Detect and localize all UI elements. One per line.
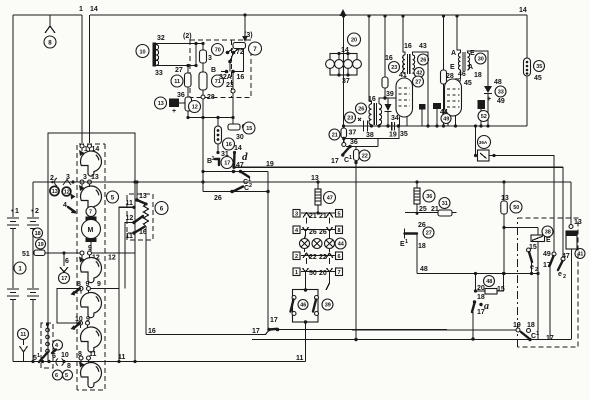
relay ref 38: [542, 226, 553, 237]
svg-text:27: 27: [426, 231, 432, 237]
gauge G6: [81, 363, 102, 388]
fork 26 left: [303, 227, 309, 235]
wire net16 to lighting switch: [146, 330, 269, 335]
svg-text:11: 11: [118, 354, 126, 361]
motor M: [82, 220, 101, 239]
svg-text:6: 6: [65, 258, 69, 265]
wire relay pin12 to panel: [125, 223, 134, 289]
wire T1 left top: [403, 16, 405, 55]
svg-text:(2): (2): [183, 33, 192, 40]
battery ref 1: [14, 262, 26, 274]
wire relay pin11 top to panel: [119, 207, 134, 361]
diode 34 wire: [387, 98, 389, 104]
net 48 wire: [417, 273, 476, 275]
connector arcs: [56, 359, 64, 366]
svg-text:39: 39: [386, 91, 394, 98]
wire resistor12 down: [187, 111, 189, 118]
wire e2b down: [549, 266, 551, 339]
svg-text:47: 47: [562, 253, 570, 260]
transformer T1 right winding: [412, 55, 414, 73]
svg-text:19: 19: [513, 322, 521, 329]
terminal 1 gauge1: [80, 144, 84, 148]
cigar lighter stem: [63, 253, 65, 266]
switch 5-1 feed wire: [47, 325, 49, 329]
transformer T2 left winding: [369, 104, 372, 125]
junction dots cap19: [386, 124, 389, 127]
resistor ref 11: [171, 75, 183, 87]
battery B1 bottom cell: [7, 289, 19, 300]
gauge G4: [81, 293, 102, 318]
motor brush bottom: [86, 238, 97, 242]
svg-text:70: 70: [215, 48, 221, 54]
svg-text:2: 2: [35, 208, 39, 215]
terminal 9 gauge5: [86, 321, 90, 325]
wire contactor right leg: [233, 49, 244, 72]
svg-text:16: 16: [404, 43, 412, 50]
switch 47 terminal: [561, 257, 565, 261]
svg-text:11: 11: [126, 200, 134, 207]
resistor 47 striped: [315, 189, 321, 205]
wire capsule bottom: [217, 144, 219, 153]
svg-text:33: 33: [155, 70, 163, 77]
svg-text:47: 47: [236, 162, 244, 169]
junction dots row117: [186, 116, 189, 119]
gauge cluster dashed box: [77, 144, 105, 390]
coil 10 winding: [156, 45, 159, 66]
wire lamp 11 stem: [23, 340, 25, 346]
terminal 8 gauge4: [79, 287, 83, 291]
T1 ref 26: [418, 54, 429, 65]
wire ballast to bus126: [526, 76, 528, 126]
transformer T3 right winding: [468, 53, 470, 70]
wire resistor50 down: [503, 214, 505, 274]
diode 34: [385, 104, 392, 111]
svg-text:13: 13: [311, 175, 319, 182]
svg-text:6: 6: [55, 373, 58, 379]
wire 37 bypass loop: [344, 126, 399, 139]
wire resistor 27 down: [187, 87, 189, 98]
net 19 long wire: [234, 166, 563, 168]
svg-text:21: 21: [332, 133, 338, 139]
capacitor on plate lead: [419, 104, 426, 110]
switchbox 46-39 body: [293, 290, 319, 323]
switch C2 blade: [233, 187, 243, 192]
gauge G1: [81, 151, 102, 176]
wire lamp bank feed: [343, 16, 345, 54]
relay blade mid: [134, 216, 143, 223]
wire link 196: [195, 44, 197, 66]
switch 5-1 blade: [39, 353, 48, 363]
svg-text:26: 26: [420, 58, 426, 64]
svg-text:E: E: [450, 64, 455, 71]
svg-text:16: 16: [385, 55, 393, 62]
wire 51 to gauge3: [45, 252, 80, 254]
switch a terminal: [473, 300, 476, 303]
junction dots top wire: [194, 42, 197, 45]
T3 ref 30: [475, 53, 486, 64]
svg-text:6: 6: [52, 353, 56, 360]
junction dot below 22: [354, 161, 357, 164]
wire coil10 bottom: [156, 65, 196, 67]
cap 52 stub: [480, 109, 482, 126]
capacitor 41 cylinder: [566, 231, 577, 249]
switch blade gauge5: [74, 323, 80, 328]
terminal 18 bottom right: [527, 329, 531, 333]
cap ref 49: [441, 114, 451, 124]
instrument panel box: [48, 133, 135, 362]
gauge G3 pointer: [79, 257, 85, 263]
svg-text:13: 13: [52, 189, 58, 195]
capacitor C: [228, 124, 240, 130]
fork 50: [303, 268, 309, 283]
svg-text:36: 36: [350, 139, 358, 146]
cap 44: [433, 103, 441, 109]
gauge G4 stubs: [81, 291, 89, 294]
ground fork symbol: [20, 346, 28, 362]
wire fuse to corner: [489, 156, 554, 253]
relay 38 body: [531, 235, 545, 242]
cap 52: [478, 100, 486, 109]
switch blade d: [233, 153, 236, 167]
tube V2 envelope: [445, 79, 462, 116]
cap ref 52: [478, 111, 489, 122]
wire battery 1 middle: [12, 229, 14, 289]
switchbox top dot: [304, 288, 307, 291]
lamp bank stubs: [339, 54, 348, 76]
lamp L1: [300, 239, 310, 249]
svg-text:19: 19: [389, 132, 397, 139]
switch 47 blade: [558, 261, 563, 270]
relay contact ref 70: [212, 44, 224, 56]
box label 7: [336, 268, 343, 276]
svg-text:51: 51: [22, 251, 30, 258]
junction dots C2 row: [230, 190, 233, 193]
terminal 11 gauge6: [87, 356, 91, 360]
diode ref 33: [495, 86, 506, 97]
svg-text:44: 44: [338, 242, 345, 248]
svg-text:34: 34: [391, 115, 399, 122]
lamp row2 wire: [301, 229, 335, 231]
svg-text:48: 48: [486, 279, 492, 285]
svg-text:17: 17: [477, 309, 485, 316]
svg-text:39: 39: [325, 303, 331, 309]
svg-text:11: 11: [126, 233, 134, 240]
gauge G1 stubs: [82, 148, 90, 151]
lamp row4 wire: [301, 271, 335, 273]
svg-text:32A: 32A: [219, 74, 232, 81]
gauge G6 stubs: [81, 360, 89, 363]
gauge G6 pointer: [79, 362, 85, 368]
svg-text:E: E: [546, 237, 551, 244]
svg-text:17: 17: [331, 158, 339, 165]
lamp ref 44: [335, 238, 346, 249]
transformer T2 core: [374, 103, 376, 125]
switch e2b terminal: [552, 252, 556, 256]
svg-text:26: 26: [214, 195, 222, 202]
switch 22 left: [303, 253, 310, 258]
svg-text:4: 4: [63, 202, 67, 209]
box label 2: [293, 252, 300, 260]
resistor ref 22: [359, 150, 370, 161]
wire T1 right top: [412, 52, 428, 126]
switch C1 blade: [241, 172, 250, 178]
wire coil10 top to box: [156, 43, 203, 45]
svg-text:32: 32: [157, 35, 165, 42]
fuse 18: [33, 228, 43, 238]
switchbox blade left: [291, 300, 294, 312]
svg-text:18: 18: [35, 231, 41, 237]
switchbox terminals: [292, 296, 296, 300]
arrow 40: [71, 194, 76, 200]
svg-text:8: 8: [338, 228, 341, 234]
switch 17 bottom blade: [267, 328, 271, 332]
svg-text:1: 1: [349, 155, 352, 161]
relay blade bottom: [134, 227, 144, 233]
switch e2 left terminal: [527, 248, 531, 252]
junction dot bus126: [342, 124, 345, 127]
resistor ref 36: [423, 190, 435, 202]
dashed box 2: [190, 40, 251, 98]
svg-text:19: 19: [38, 242, 44, 248]
svg-text:3: 3: [83, 174, 87, 181]
switch a blade: [472, 303, 475, 312]
motor feed ref 7: [86, 207, 96, 217]
resistor 22: [355, 147, 357, 150]
svg-text:33: 33: [498, 90, 504, 96]
lamp bank bulbs: [326, 60, 335, 69]
switch 5-1 top dot: [46, 323, 49, 326]
terminal 36 open: [343, 139, 345, 143]
transformer T3 left winding: [458, 53, 460, 70]
junction 48 bus: [474, 272, 477, 275]
terminal 9 gauge4: [87, 287, 91, 291]
junction dot resistor 37: [342, 137, 345, 140]
wire heater down: [416, 234, 418, 274]
battery B2 top cell: [27, 218, 39, 229]
svg-text:26: 26: [309, 229, 317, 236]
resistor ref 12: [189, 101, 201, 113]
junction dots ground bus: [31, 360, 34, 363]
switchbox blade right: [313, 300, 316, 312]
ground bus bottom: [13, 361, 306, 363]
svg-text:12: 12: [108, 255, 116, 262]
transformer T2 right winding: [379, 104, 382, 125]
terminal 8 gauge6: [79, 356, 83, 360]
wire left edge to battery 1: [12, 15, 14, 217]
svg-text:18: 18: [418, 243, 426, 250]
wire 14 feed to contactor: [244, 15, 246, 40]
switch ref 39: [322, 299, 333, 310]
svg-text:A: A: [451, 50, 456, 57]
transformer T1 core: [408, 54, 410, 74]
svg-text:12: 12: [126, 215, 134, 222]
terminal 28: [202, 90, 204, 95]
wire T3 right top to diode: [468, 51, 489, 86]
cigar lighter ref 17: [59, 273, 70, 284]
resistor 47 feed: [316, 180, 319, 183]
cigar lighter fork: [60, 267, 68, 272]
coil 10 core bar: [153, 43, 157, 67]
wire relay pin11 bottom stub: [128, 232, 134, 234]
svg-text:19: 19: [266, 161, 274, 168]
svg-text:A: A: [468, 64, 473, 71]
resistor 36 feed: [415, 180, 418, 183]
motor brush top: [86, 217, 97, 221]
fuse 36A body: [478, 150, 490, 161]
resistor 16-23: [384, 16, 386, 77]
bus 339: [252, 339, 572, 341]
dashed box accessory top right bottom: [518, 218, 579, 347]
svg-text:22: 22: [362, 154, 368, 160]
fuse ref 12 dark: [62, 187, 71, 196]
wire 19 drop to C2 row: [267, 172, 269, 330]
lamp bank dots: [337, 52, 340, 55]
svg-text:1: 1: [405, 239, 408, 245]
contact cluster wires: [221, 49, 239, 72]
resistor 3: [202, 44, 204, 51]
relay feed from bus: [136, 182, 138, 200]
svg-text:18: 18: [477, 294, 485, 301]
svg-text:1: 1: [79, 6, 83, 13]
svg-text:+: +: [172, 108, 176, 115]
svg-text:18: 18: [474, 72, 482, 79]
svg-text:7: 7: [338, 270, 341, 276]
gauge G1 pointer: [79, 150, 85, 156]
svg-text:16: 16: [237, 74, 245, 81]
lamp row3 wire: [301, 255, 335, 257]
ballast ref 35: [534, 61, 545, 72]
terminal 13 gauge2: [88, 180, 92, 184]
antenna stub: [49, 15, 51, 27]
switch C1 bottom blade: [521, 332, 529, 338]
ref 5 circle: [63, 370, 73, 380]
wire T1 left bottom grid cap: [404, 73, 406, 78]
lamp links: [305, 218, 330, 265]
wire capsule top: [217, 118, 219, 127]
resistor 36 striped: [414, 188, 420, 204]
svg-text:23: 23: [391, 65, 397, 71]
switch 21 left: [303, 213, 310, 218]
cap 44 stub: [436, 109, 438, 126]
lamp L3: [325, 239, 335, 249]
gauge G2: [81, 186, 102, 211]
svg-text:e: e: [558, 271, 562, 278]
contactor 72: [233, 43, 246, 49]
svg-text:1: 1: [212, 156, 215, 162]
junction dot B row: [348, 145, 351, 148]
fuse 19: [36, 239, 46, 249]
wire 227 row: [504, 227, 538, 229]
switch 5-1 contact chain: [46, 328, 50, 332]
tube V1 envelope: [396, 78, 413, 117]
pin 31: [216, 151, 219, 154]
svg-text:49: 49: [543, 251, 551, 258]
ignition ref 17: [221, 157, 233, 169]
resistor ref 31: [439, 198, 450, 209]
ref 21 circle: [329, 129, 340, 140]
wire 12 row to panel edge: [92, 252, 136, 254]
battery B2 bottom cell: [27, 289, 39, 300]
svg-text:23: 23: [347, 116, 353, 122]
svg-text:13: 13: [139, 193, 147, 200]
bus 273 accessory: [476, 273, 539, 275]
box label 6: [336, 252, 343, 260]
wire cap41 down to bus339: [571, 249, 573, 339]
capsule dots: [217, 129, 220, 132]
capacitor ref 13: [155, 97, 167, 109]
svg-text:27: 27: [415, 80, 421, 86]
resistor 28 left of V2: [443, 16, 445, 70]
ballast tube 35: [524, 58, 531, 76]
wire e2 down: [531, 262, 533, 274]
svg-text:26: 26: [319, 229, 327, 236]
svg-text:14: 14: [234, 145, 242, 152]
resistor ref 50: [510, 201, 522, 213]
svg-text:36: 36: [177, 92, 185, 99]
junction dot 196-65: [194, 64, 197, 67]
svg-text:46: 46: [458, 71, 466, 78]
svg-text:17: 17: [224, 161, 230, 167]
wire battery 1 to ground bus: [12, 300, 14, 362]
tube V1 pins: [400, 117, 408, 127]
terminal 3 gauge2: [80, 180, 84, 184]
wire bus182 corner down: [570, 182, 572, 225]
svg-text:17: 17: [270, 317, 278, 324]
terminal 12 gauge3: [88, 251, 92, 255]
vibrator ref 16: [223, 138, 235, 150]
box label 3: [293, 210, 300, 218]
terminal 23 open: [231, 89, 235, 93]
gauge G5 stubs: [81, 325, 88, 328]
tube V2 pins: [448, 116, 456, 127]
svg-text:31: 31: [442, 201, 448, 207]
gauge G2 stubs: [82, 184, 90, 187]
svg-text:8: 8: [67, 363, 71, 370]
svg-text:5: 5: [338, 212, 341, 218]
node a label: [479, 303, 482, 306]
lamp ref 11: [18, 329, 29, 340]
wire 28 down: [202, 99, 204, 118]
tube V1 grids: [399, 88, 411, 106]
svg-text:11: 11: [296, 355, 304, 362]
wire row 117: [188, 117, 233, 119]
svg-text:15: 15: [246, 126, 252, 132]
T2 ref 23: [345, 112, 356, 123]
terminal 14 gauge1: [88, 144, 92, 148]
dashed box ignition switch 5-1: [41, 323, 53, 368]
wire T3 left bottom to V2: [460, 70, 462, 79]
svg-text:12: 12: [64, 190, 70, 196]
wire relay38 down: [537, 242, 539, 274]
fuse 36A ref: [478, 136, 491, 149]
antenna symbol: [45, 26, 55, 33]
box label 8: [336, 226, 343, 234]
svg-text:14: 14: [519, 7, 527, 14]
grid dot 39: [383, 96, 386, 99]
svg-text:12: 12: [192, 105, 198, 111]
T2 ref 26: [356, 103, 367, 114]
wire 117 down to coil block: [232, 118, 234, 125]
diode 33: [484, 86, 492, 93]
box label 1: [293, 268, 300, 276]
svg-text:38: 38: [545, 230, 551, 236]
battery B1 top cell: [7, 218, 19, 229]
wire gauge4 left chain: [57, 289, 79, 324]
relay 38 feed: [537, 228, 539, 236]
svg-text:45: 45: [464, 80, 472, 87]
svg-text:47: 47: [327, 196, 333, 202]
svg-text:22: 22: [309, 254, 317, 261]
